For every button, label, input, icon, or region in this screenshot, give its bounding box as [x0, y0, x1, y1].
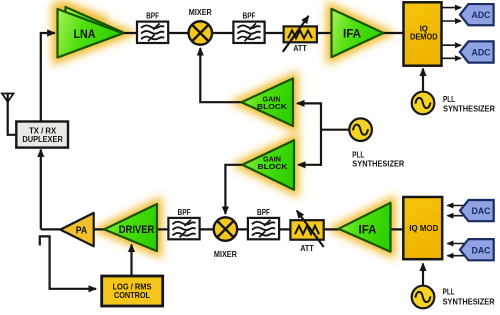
svg-text:DAC: DAC — [472, 206, 491, 217]
svg-text:DAC: DAC — [472, 245, 491, 256]
glow DRIVER — [104, 204, 157, 251]
mixer 2 — [214, 217, 238, 259]
attenuator ATT2 — [290, 211, 323, 253]
wire gain block 1 to mixer 1 — [200, 48, 241, 102]
svg-text:IFA: IFA — [359, 225, 377, 237]
svg-text:PLL: PLL — [443, 287, 455, 297]
mixer 1 — [189, 8, 213, 45]
amplifier PA — [60, 213, 93, 246]
svg-text:MIXER: MIXER — [214, 250, 237, 259]
svg-text:BLOCK: BLOCK — [257, 102, 288, 111]
LOG/RMS control — [102, 276, 163, 306]
glow gain block 1 — [242, 78, 294, 126]
svg-text:DEMOD: DEMOD — [410, 33, 438, 42]
svg-text:ATT: ATT — [293, 44, 307, 53]
TX/RX duplexer — [16, 122, 68, 148]
antenna — [2, 94, 16, 135]
amplifier DRIVER — [104, 204, 157, 251]
glow IFA U7 — [339, 203, 391, 252]
svg-text:ATT: ATT — [300, 244, 314, 253]
wire PLL2 to gain block 1 — [297, 102, 321, 104]
wires DACs to IQ mod — [447, 206, 464, 256]
filter BPF3 — [168, 208, 199, 239]
wire LOG/RMS to DRIVER — [130, 245, 132, 277]
svg-text:ADC: ADC — [472, 48, 491, 59]
glow IFA U3 — [332, 9, 384, 57]
wire gain block 2 to mixer 2 — [225, 165, 242, 214]
svg-text:BPF: BPF — [257, 208, 270, 217]
svg-text:LNA: LNA — [74, 29, 96, 41]
svg-text:SYNTHESIZER: SYNTHESIZER — [443, 103, 495, 113]
wire PLL1 to IQ demod — [422, 69, 424, 93]
svg-text:IFA: IFA — [343, 29, 361, 41]
wire RX chain top — [123, 32, 404, 34]
glow gain block 2 — [242, 140, 294, 190]
svg-text:BLOCK: BLOCK — [258, 162, 289, 171]
svg-text:CONTROL: CONTROL — [114, 290, 150, 300]
svg-text:MIXER: MIXER — [189, 8, 212, 17]
amplifier IFA (RX) — [332, 9, 384, 57]
svg-text:SYNTHESIZER: SYNTHESIZER — [443, 297, 495, 307]
wire PLL2 splitter — [321, 129, 349, 131]
svg-text:IQ MOD: IQ MOD — [409, 224, 438, 233]
svg-text:DRIVER: DRIVER — [119, 224, 155, 236]
svg-text:TX / RX: TX / RX — [29, 127, 57, 136]
attenuator ATT1 — [283, 16, 317, 53]
PLL synthesizer 1 — [412, 92, 495, 115]
svg-text:PLL: PLL — [443, 94, 455, 104]
wire PA to duplexer — [40, 150, 42, 230]
IQ modulator — [403, 197, 442, 259]
amplifier gain block 2 — [242, 140, 294, 190]
PLL synthesizer 3 — [412, 286, 495, 309]
DAC 1 — [460, 200, 494, 221]
wire PLL3 to IQ mod — [422, 264, 424, 286]
ADC 2 — [460, 41, 494, 62]
wire duplexer to LNA input — [41, 33, 55, 122]
svg-text:ADC: ADC — [472, 10, 491, 21]
svg-text:DUPLEXER: DUPLEXER — [22, 135, 63, 144]
amplifier IFA (TX) — [339, 203, 391, 252]
wires IQ demod to ADCs — [442, 8, 461, 59]
svg-text:BPF: BPF — [178, 208, 191, 217]
amplifier LNA — [58, 7, 124, 58]
wire PA sense to LOG/RMS — [40, 236, 96, 288]
svg-text:SYNTHESIZER: SYNTHESIZER — [352, 158, 404, 168]
wire TX chain bottom — [41, 228, 404, 230]
glow LNA — [58, 7, 124, 58]
filter BPF1 — [137, 12, 168, 44]
amplifier gain block 1 — [242, 78, 294, 126]
DAC 2 — [460, 239, 494, 260]
svg-text:BPF: BPF — [243, 12, 256, 21]
svg-text:PA: PA — [76, 224, 88, 236]
ADC 1 — [460, 4, 494, 25]
IQ demodulator — [404, 2, 442, 65]
svg-text:BPF: BPF — [146, 12, 159, 21]
wire PLL2 to gain block 2 — [298, 164, 321, 166]
filter BPF2 — [233, 12, 264, 44]
filter BPF4 — [248, 208, 279, 239]
PLL synthesizer 2 — [349, 118, 404, 168]
